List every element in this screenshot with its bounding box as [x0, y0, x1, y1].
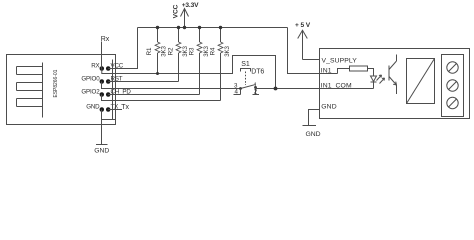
svg-text:3K3: 3K3 [224, 46, 231, 57]
contact 1 [254, 86, 257, 89]
wire rail to relay IN1 [288, 28, 338, 74]
svg-text:R3: R3 [188, 47, 195, 55]
svg-text:R2: R2 [167, 47, 174, 55]
svg-text:VCC: VCC [173, 4, 180, 18]
button actuator bracket [241, 69, 251, 72]
svg-text:GPIO0: GPIO0 [81, 76, 100, 83]
opto phototransistor Q1 [389, 55, 397, 95]
ESP8266-01 module U1 [7, 55, 132, 125]
internal wire IN1 to resistor [338, 69, 350, 74]
svg-text:Tx: Tx [121, 104, 129, 111]
opto LED D1 [371, 75, 385, 89]
wire VCC pin to rail and R1 [108, 28, 137, 69]
svg-text:S1: S1 [241, 61, 250, 68]
terminal 3 [447, 97, 458, 108]
pin 4 stub [234, 89, 241, 95]
wire relay GND down to ground [309, 110, 320, 126]
svg-text:IN1: IN1 [321, 68, 332, 75]
junction R1 to Rx wire [156, 72, 159, 75]
ground symbol GND (relay) [303, 126, 321, 138]
internal wire IN1_COM to LED cathode [320, 88, 374, 90]
emission arrows [377, 75, 382, 81]
svg-text:GND: GND [94, 147, 109, 154]
svg-text:ESP8266-01: ESP8266-01 [53, 69, 59, 97]
svg-text:GND: GND [305, 131, 320, 138]
resistor R2 3K3 [167, 26, 189, 82]
relay input resistor [350, 66, 368, 71]
resistor R3 3K3 [188, 26, 210, 95]
wire GND pin down to ground [101, 110, 103, 145]
svg-text:DT6: DT6 [251, 68, 264, 75]
svg-text:R1: R1 [146, 47, 153, 55]
svg-text:R4: R4 [209, 47, 216, 55]
module outline [7, 55, 116, 125]
resistor R4 3K3 [209, 26, 231, 101]
terminal 1 [447, 62, 458, 73]
svg-text:+3.3V: +3.3V [182, 2, 199, 9]
wire GPIO2 to R4 [102, 95, 221, 101]
wire CH_PD pin to R3 [108, 94, 199, 96]
wire RST pin to R2 [108, 81, 178, 83]
svg-text:GND: GND [321, 104, 336, 111]
svg-text:GPIO2: GPIO2 [81, 89, 100, 96]
wire RX pin up to Rx label [101, 42, 103, 69]
svg-text:RX: RX [91, 63, 99, 70]
svg-text:Rx: Rx [101, 36, 110, 43]
pin pads [100, 66, 105, 71]
power symbol +5V [295, 22, 312, 60]
wire resistor to LED [368, 69, 374, 77]
emitter arrow [393, 82, 396, 85]
resistor R1 3K3 [146, 26, 168, 74]
screw terminal block X1 [442, 55, 464, 117]
junction at 275 [274, 87, 278, 91]
switch S1 DT6 [234, 61, 265, 96]
pin 2 stub [253, 88, 260, 95]
antenna meander [17, 63, 43, 118]
VCC +3.3V rail [138, 27, 288, 29]
terminal 2 [447, 80, 458, 91]
svg-text:+5V: +5V [295, 22, 312, 29]
wire Rx net over switch to IN1_COM node [102, 56, 276, 89]
ground symbol GND (ESP) [94, 145, 109, 155]
wire +5V to V_SUPPLY [303, 59, 320, 61]
svg-text:V_SUPPLY: V_SUPPLY [322, 58, 358, 65]
svg-text:GND: GND [86, 104, 100, 111]
wire GPIO0 to switch S1 pin 3 [102, 82, 241, 89]
power symbol VCC +3.3V [173, 2, 200, 29]
actuator dashed stem [245, 72, 247, 86]
wire switch pin 1 to relay IN1_COM [256, 88, 320, 90]
contact 3 [239, 87, 242, 90]
internal vertical trace [102, 60, 116, 120]
wire TX pin stub [108, 109, 122, 111]
relay coil K1 [407, 59, 435, 104]
armature [241, 85, 256, 89]
relay module board outline [320, 49, 470, 119]
